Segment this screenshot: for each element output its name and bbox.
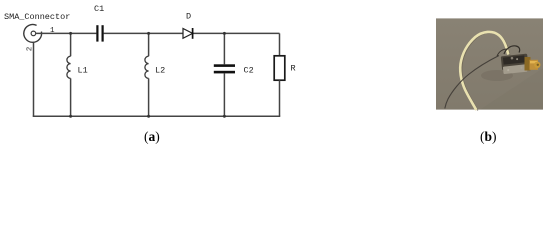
black wire (445, 56, 499, 109)
photo background (436, 18, 543, 109)
black wire strand over connector (504, 46, 520, 54)
svg-text:L2: L2 (155, 66, 165, 76)
inductor L1 (67, 33, 88, 116)
SMA connector J1 (24, 24, 42, 42)
svg-text:D: D (186, 12, 191, 22)
photo (b) (436, 18, 543, 110)
svg-text:R: R (291, 64, 296, 74)
antenna wire shadow (462, 32, 510, 110)
photo shadow under connector (481, 70, 513, 81)
junction node top L1 (69, 32, 72, 35)
junction node bottom L2 (147, 115, 150, 118)
svg-text:(b): (b) (480, 129, 497, 144)
svg-text:SMA_Connector: SMA_Connector (4, 12, 70, 22)
wire top rail segment 1 (36, 32, 97, 34)
resistor R (274, 33, 295, 116)
junction node top L2 (147, 32, 150, 35)
svg-text:C2: C2 (244, 66, 254, 76)
inductor L2 (145, 33, 165, 116)
junction node bottom L1 (69, 115, 72, 118)
connector body (501, 54, 529, 75)
black wire strand 2 (497, 49, 508, 56)
diode D (183, 12, 193, 39)
junction node bottom C2 (223, 115, 226, 118)
wire pin2 vertical (33, 42, 35, 116)
junction node top C2 (223, 32, 226, 35)
wire top rail segment 3 (193, 32, 280, 34)
antenna wire cream (460, 32, 508, 110)
SMA jack gold (525, 57, 541, 71)
capacitor C1 (94, 4, 104, 42)
capacitor C2 (214, 33, 254, 116)
photo diagonal surface shade (480, 68, 543, 110)
wire top rail segment 2 (104, 32, 183, 34)
svg-text:(a): (a) (144, 129, 160, 144)
wire bottom rail (33, 115, 281, 117)
svg-text:L1: L1 (78, 66, 88, 76)
svg-text:C1: C1 (94, 4, 104, 14)
